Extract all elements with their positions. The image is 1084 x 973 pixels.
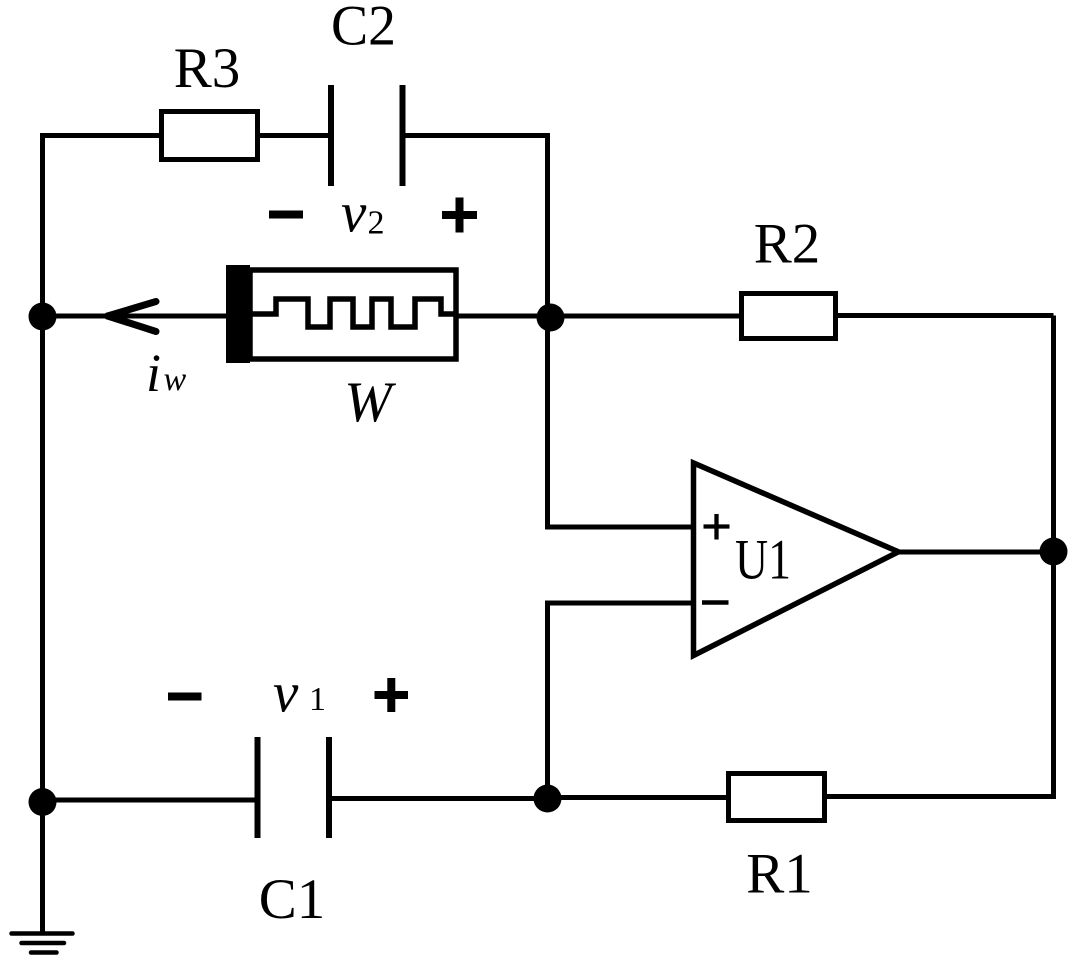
svg-text:U1: U1	[735, 529, 791, 592]
svg-text:R3: R3	[174, 37, 241, 100]
svg-text:2: 2	[368, 205, 385, 242]
svg-text:v: v	[341, 182, 367, 245]
svg-text:w: w	[164, 361, 187, 398]
svg-text:W: W	[344, 371, 396, 434]
svg-text:v: v	[273, 662, 299, 725]
svg-text:C2: C2	[331, 0, 396, 58]
svg-text:C1: C1	[259, 868, 326, 931]
svg-text:1: 1	[309, 681, 326, 718]
svg-text:R1: R1	[746, 843, 813, 906]
svg-text:i: i	[146, 343, 161, 403]
svg-text:R2: R2	[754, 213, 821, 276]
